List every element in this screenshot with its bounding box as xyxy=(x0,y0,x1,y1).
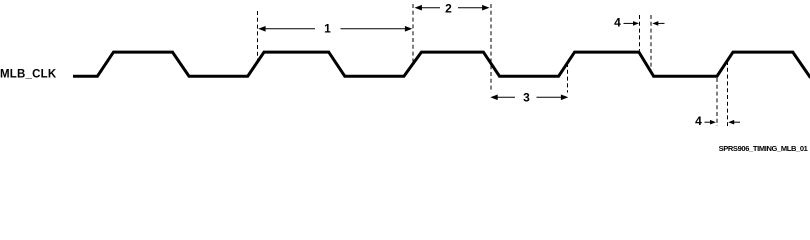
svg-text:2: 2 xyxy=(445,2,452,16)
svg-text:4: 4 xyxy=(614,16,621,30)
svg-text:MLB_CLK: MLB_CLK xyxy=(0,69,57,81)
svg-text:3: 3 xyxy=(523,91,530,105)
svg-text:1: 1 xyxy=(324,22,331,36)
svg-text:SPRS906_TIMING_MLB_01: SPRS906_TIMING_MLB_01 xyxy=(719,144,808,153)
svg-text:4: 4 xyxy=(695,114,702,128)
